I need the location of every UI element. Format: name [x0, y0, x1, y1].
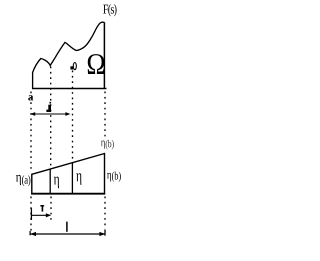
dotted line below x=31: [30, 197, 32, 232]
label eta cell3: [76, 173, 81, 185]
tau dimension line: [31, 208, 51, 220]
label eta cell2: [54, 177, 59, 189]
divider at x=72.4: [71, 163, 73, 194]
divider at x=50.2: [49, 169, 51, 194]
curve F(s) top boundary: [33, 22, 105, 89]
dotted line at x=105: [104, 92, 106, 138]
dotted line at x=50.7: [50, 67, 52, 169]
point s0 marker: [70, 63, 76, 70]
label l: [66, 222, 68, 232]
length l dimension line: [30, 230, 105, 237]
dimension label i: [46, 102, 51, 112]
label Omega: [88, 54, 105, 74]
dotted line below x=105: [104, 197, 106, 230]
dotted line below x=51: [50, 197, 52, 221]
base line of region: [32, 88, 107, 90]
label a: [28, 95, 33, 100]
label eta(b) upper: [101, 140, 114, 150]
dotted line at x=72.5: [72, 71, 74, 162]
label F(s): [103, 4, 116, 16]
trapezoid bottom edge thick: [31, 193, 105, 195]
label eta(a): [16, 175, 30, 186]
right edge of region: [103, 22, 105, 88]
label tau: [40, 205, 44, 212]
dotted line at x=31: [30, 92, 32, 172]
trapezoid eta region: [32, 154, 105, 194]
dimension arrow a to s0: [30, 112, 70, 116]
label eta(b) lower: [107, 172, 121, 182]
